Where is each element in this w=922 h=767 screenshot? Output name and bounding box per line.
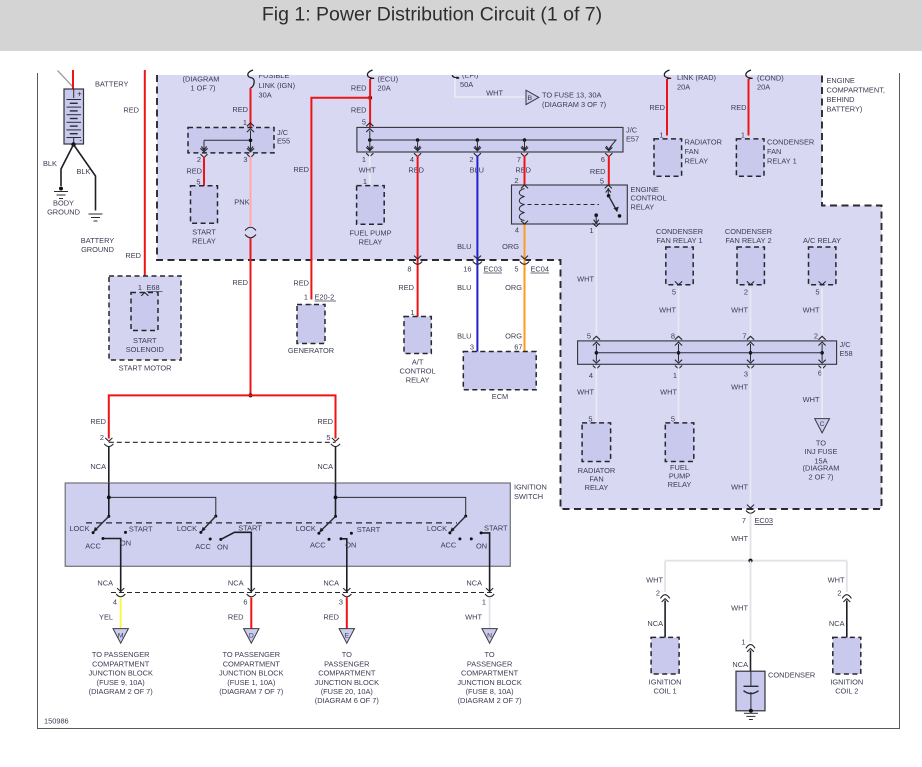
svg-text:YEL: YEL xyxy=(99,613,113,622)
off-page connector E xyxy=(339,629,354,644)
svg-text:BLU: BLU xyxy=(457,242,471,251)
J/C E55 pin 2 xyxy=(200,154,207,157)
svg-text:COMPARTMENT,: COMPARTMENT, xyxy=(827,86,885,95)
svg-text:IGNITION: IGNITION xyxy=(649,678,682,687)
wire RED branch to generator xyxy=(311,98,370,300)
junction at ECU fuse wire xyxy=(368,96,372,100)
svg-text:START: START xyxy=(133,336,157,345)
svg-text:5: 5 xyxy=(362,118,366,127)
wire RED ECU fuse to J/C E57 pin 5 xyxy=(369,79,371,127)
svg-text:NCA: NCA xyxy=(97,579,113,588)
ignition switch connector dashed line xyxy=(109,441,336,443)
svg-text:COIL 2: COIL 2 xyxy=(835,687,858,696)
svg-text:16: 16 xyxy=(463,265,471,274)
wire RED to radiator fan relay xyxy=(666,79,668,136)
relay pin 1 internal xyxy=(594,213,598,217)
svg-text:J/C: J/C xyxy=(626,126,638,135)
svg-text:WHT: WHT xyxy=(828,576,845,585)
wire WHT engine control relay pin1 to J/C E58 pin 5 xyxy=(595,229,597,341)
svg-text:CONDENSER: CONDENSER xyxy=(768,671,815,680)
svg-text:4: 4 xyxy=(589,371,593,380)
condenser capacitor symbol xyxy=(750,671,752,686)
fusible link (RAD) 20A xyxy=(664,70,670,79)
pin chevron xyxy=(366,186,373,189)
svg-text:IGNITION: IGNITION xyxy=(830,678,863,687)
wire RED battery positive feed xyxy=(72,70,74,89)
junction connector J/C E57 xyxy=(357,127,623,152)
svg-text:COMPARTMENT: COMPARTMENT xyxy=(92,659,150,668)
svg-text:(ECU): (ECU) xyxy=(378,75,399,84)
connector EC03 pin 7 xyxy=(747,505,754,508)
svg-text:RED: RED xyxy=(323,613,339,622)
relay switch contact xyxy=(606,189,611,193)
svg-text:2: 2 xyxy=(197,155,201,164)
svg-text:50A: 50A xyxy=(460,80,473,89)
svg-text:RELAY: RELAY xyxy=(585,483,609,492)
wire NCA into ignition switch (left) xyxy=(108,447,110,517)
svg-text:30A: 30A xyxy=(259,91,272,100)
svg-text:5: 5 xyxy=(326,433,330,442)
wire BLK to battery ground xyxy=(74,145,96,211)
battery ground symbol xyxy=(89,213,103,215)
svg-text:ACC: ACC xyxy=(195,542,211,551)
svg-text:BATTERY): BATTERY) xyxy=(827,105,863,114)
start motor M1 (outer box) xyxy=(109,276,181,360)
svg-text:B: B xyxy=(528,95,533,102)
wire RED battery feed to start solenoid xyxy=(144,70,146,290)
svg-text:NCA: NCA xyxy=(317,462,333,471)
wire YEL to fuse 9 xyxy=(120,597,122,628)
svg-text:7: 7 xyxy=(742,516,746,525)
junction battery negative xyxy=(71,142,75,146)
svg-text:CONDENSER: CONDENSER xyxy=(767,138,814,147)
svg-text:RED: RED xyxy=(123,106,139,115)
svg-text:RED: RED xyxy=(351,106,367,115)
svg-text:START: START xyxy=(238,524,262,533)
svg-text:RED: RED xyxy=(590,167,606,176)
relay internal dashed link xyxy=(528,204,600,206)
svg-text:2: 2 xyxy=(837,589,841,598)
svg-text:(DIAGRAM 2 OF 7): (DIAGRAM 2 OF 7) xyxy=(89,687,153,696)
svg-text:8: 8 xyxy=(407,265,411,274)
svg-text:WHT: WHT xyxy=(359,166,376,175)
svg-text:ON: ON xyxy=(476,542,487,551)
wire WHT E58 pin6 to connector C xyxy=(821,367,823,418)
wire RED E55 pin2 to start relay xyxy=(203,157,205,186)
wire WHT a/c relay to E58 pin 2 xyxy=(821,289,823,341)
svg-text:INJ FUSE: INJ FUSE xyxy=(805,447,838,456)
junction condenser ground xyxy=(749,709,753,713)
off-page connector C to INJ fuse xyxy=(815,419,830,433)
ignition switch position 2 xyxy=(214,515,217,518)
svg-text:RED: RED xyxy=(398,283,414,292)
svg-text:RELAY: RELAY xyxy=(631,202,655,211)
wire WHT distribution bus xyxy=(665,560,847,562)
pin chevron start relay xyxy=(200,186,207,189)
svg-text:20A: 20A xyxy=(677,83,690,92)
svg-text:WHT: WHT xyxy=(803,306,820,315)
svg-text:3: 3 xyxy=(243,155,247,164)
svg-text:5: 5 xyxy=(600,177,604,186)
svg-text:(DIAGRAM 2 OF 7): (DIAGRAM 2 OF 7) xyxy=(458,696,522,705)
wire RED distribution to ignition switch pins xyxy=(109,395,336,438)
svg-text:(DIAGRAM 7 OF 7): (DIAGRAM 7 OF 7) xyxy=(219,687,283,696)
svg-text:TO: TO xyxy=(485,650,495,659)
svg-text:START: START xyxy=(357,525,381,534)
svg-text:NCA: NCA xyxy=(466,579,482,588)
svg-text:RED: RED xyxy=(293,279,309,288)
junction connector J/C E58 xyxy=(578,341,837,364)
svg-text:EC03: EC03 xyxy=(484,265,503,274)
svg-text:2: 2 xyxy=(656,589,660,598)
svg-text:8: 8 xyxy=(671,332,675,341)
wire WHT condenser fan relay 1 to E58 pin 8 xyxy=(678,289,680,341)
svg-text:FAN: FAN xyxy=(767,147,781,156)
svg-text:1: 1 xyxy=(589,226,593,235)
J/C E58 pins and internal bus xyxy=(593,336,600,339)
svg-text:(FUSE 8, 10A): (FUSE 8, 10A) xyxy=(466,687,514,696)
svg-text:6: 6 xyxy=(243,598,247,607)
fuse (ECU) 20A xyxy=(367,70,373,79)
svg-text:RED: RED xyxy=(232,105,248,114)
svg-text:FUSIBLE: FUSIBLE xyxy=(259,71,290,80)
junction red distribution xyxy=(249,393,253,397)
svg-text:WHT: WHT xyxy=(577,388,594,397)
connector pin 2 coil 1 xyxy=(661,595,670,599)
body ground symbol xyxy=(59,187,63,191)
svg-text:2: 2 xyxy=(514,176,518,185)
svg-text:CONDENSER: CONDENSER xyxy=(656,227,703,236)
J/C E55 pin 1 xyxy=(247,123,254,126)
ignition switch internal feed right xyxy=(335,483,337,516)
svg-text:BLK: BLK xyxy=(77,167,91,176)
svg-text:5: 5 xyxy=(815,288,819,297)
svg-text:ACC: ACC xyxy=(85,542,101,551)
wire PNK from J/C E55 pin 3 xyxy=(250,157,252,227)
connector EC04 pin 5 xyxy=(521,256,528,259)
svg-text:1: 1 xyxy=(362,155,366,164)
svg-text:LOCK: LOCK xyxy=(427,524,447,533)
svg-text:67: 67 xyxy=(514,343,522,352)
wire RED E57 pin6 to engine control relay pin 5 xyxy=(608,155,610,185)
svg-text:6: 6 xyxy=(601,155,605,164)
ignition switch internal feed left xyxy=(108,483,110,516)
svg-text:(DIAGRAM 6 OF 7): (DIAGRAM 6 OF 7) xyxy=(315,696,379,705)
fuse (COND) 20A xyxy=(746,70,752,79)
wire WHT to ignition coil 1 xyxy=(664,561,666,592)
fuel pump relay (bottom) xyxy=(665,423,694,462)
svg-text:NCA: NCA xyxy=(90,462,106,471)
svg-text:ORG: ORG xyxy=(502,242,519,251)
svg-text:(COND): (COND) xyxy=(757,74,784,83)
svg-text:150986: 150986 xyxy=(44,717,69,726)
off-page connector N xyxy=(482,629,497,644)
wire ORG engine control relay pin4 to ECM xyxy=(524,224,526,352)
svg-text:(FUSE 20, 10A): (FUSE 20, 10A) xyxy=(321,687,373,696)
svg-text:ON: ON xyxy=(345,541,356,550)
wire WHT condenser fan relay 2 to E58 pin 7 xyxy=(750,289,752,341)
svg-text:(EFI): (EFI) xyxy=(462,71,478,80)
connector EC03 pin 16 xyxy=(474,256,481,259)
wire RED to ignition switch feed xyxy=(250,238,252,395)
svg-text:WHT: WHT xyxy=(731,534,748,543)
svg-text:4: 4 xyxy=(410,155,414,164)
svg-text:FAN RELAY 2: FAN RELAY 2 xyxy=(725,236,771,245)
svg-text:WHT: WHT xyxy=(731,483,748,492)
svg-text:1: 1 xyxy=(138,283,142,292)
fusible link (IGN) 30A xyxy=(248,70,254,88)
svg-text:NCA: NCA xyxy=(829,619,845,628)
svg-text:LINK (IGN): LINK (IGN) xyxy=(259,81,296,90)
svg-text:FAN: FAN xyxy=(685,147,699,156)
svg-text:TO PASSENGER: TO PASSENGER xyxy=(222,650,280,659)
svg-text:CONTROL: CONTROL xyxy=(400,367,436,376)
svg-text:RED: RED xyxy=(515,166,531,175)
svg-text:CONTROL: CONTROL xyxy=(631,194,667,203)
svg-text:E58: E58 xyxy=(840,349,853,358)
svg-text:-: - xyxy=(79,136,82,145)
relay coil xyxy=(519,189,524,221)
svg-text:GROUND: GROUND xyxy=(81,245,114,254)
battery B1 xyxy=(64,89,84,144)
svg-text:WHT: WHT xyxy=(646,576,663,585)
svg-text:ACC: ACC xyxy=(310,541,326,550)
svg-text:RED: RED xyxy=(232,278,248,287)
svg-text:LOCK: LOCK xyxy=(177,524,197,533)
wire RED to fuse 1 xyxy=(250,597,252,628)
svg-text:NCA: NCA xyxy=(228,579,244,588)
svg-text:(FUSE 9, 10A): (FUSE 9, 10A) xyxy=(97,678,145,687)
svg-text:1: 1 xyxy=(410,308,414,317)
start solenoid coil box xyxy=(131,293,158,331)
svg-text:RELAY: RELAY xyxy=(685,157,709,166)
svg-text:START: START xyxy=(484,524,508,533)
svg-text:RED: RED xyxy=(351,84,367,93)
svg-text:JUNCTION BLOCK: JUNCTION BLOCK xyxy=(219,669,284,678)
svg-text:COMPARTMENT: COMPARTMENT xyxy=(461,669,519,678)
svg-text:2: 2 xyxy=(469,155,473,164)
ignition switch position 3 xyxy=(334,515,337,518)
svg-text:BEHIND: BEHIND xyxy=(827,95,855,104)
svg-text:START MOTOR: START MOTOR xyxy=(119,364,172,373)
generator G1 xyxy=(297,305,325,344)
svg-text:ORG: ORG xyxy=(505,283,522,292)
start relay xyxy=(191,186,218,224)
svg-text:1: 1 xyxy=(673,371,677,380)
svg-text:WHT: WHT xyxy=(803,395,820,404)
pin chevron start solenoid xyxy=(141,293,148,296)
fuse (EFI) 50A xyxy=(452,70,478,80)
svg-text:WHT: WHT xyxy=(659,306,676,315)
svg-text:ON: ON xyxy=(217,543,228,552)
svg-text:PASSENGER: PASSENGER xyxy=(324,659,369,668)
svg-text:E55: E55 xyxy=(277,137,290,146)
svg-text:FAN RELAY 1: FAN RELAY 1 xyxy=(656,236,702,245)
wire NCA into ignition switch (right) xyxy=(335,447,337,517)
svg-text:WHT: WHT xyxy=(731,604,748,613)
svg-text:WHT: WHT xyxy=(465,613,482,622)
wire WHT EC03 to junction xyxy=(750,514,752,561)
svg-text:RELAY: RELAY xyxy=(406,376,430,385)
svg-text:5: 5 xyxy=(514,265,518,274)
svg-text:GROUND: GROUND xyxy=(47,208,80,217)
svg-text:5: 5 xyxy=(672,288,676,297)
ignition coil 1 xyxy=(651,637,679,674)
svg-text:BATTERY: BATTERY xyxy=(81,236,114,245)
svg-text:3: 3 xyxy=(339,598,343,607)
svg-text:(FUSE 1, 10A): (FUSE 1, 10A) xyxy=(227,678,275,687)
svg-text:RED: RED xyxy=(186,167,202,176)
svg-text:WHT: WHT xyxy=(577,275,594,284)
ignition coil 2 xyxy=(833,637,861,674)
svg-text:BODY: BODY xyxy=(53,199,74,208)
svg-text:3: 3 xyxy=(470,343,474,352)
svg-text:RED: RED xyxy=(125,251,141,260)
svg-text:RELAY: RELAY xyxy=(192,237,216,246)
svg-text:ON: ON xyxy=(120,539,131,548)
pin chevron ECM pin 67 xyxy=(521,352,528,355)
svg-text:RED: RED xyxy=(649,103,665,112)
condenser ground symbol xyxy=(744,712,758,714)
svg-text:LOCK: LOCK xyxy=(296,524,316,533)
svg-text:7: 7 xyxy=(517,155,521,164)
J/C E55 internal wiring xyxy=(250,131,252,150)
pin chevron ECM pin 3 xyxy=(474,352,481,355)
svg-text:(DIAGRAM: (DIAGRAM xyxy=(803,463,840,472)
wire off-page diagonal at battery xyxy=(58,71,73,87)
wire RED E57 pin4 to A/T control relay xyxy=(417,155,419,316)
bottom connector dashed line xyxy=(111,592,493,594)
J/C E57 internal bus xyxy=(369,131,371,141)
svg-text:SOLENOID: SOLENOID xyxy=(126,345,164,354)
svg-text:NCA: NCA xyxy=(323,579,339,588)
J/C E57 pin 5 top xyxy=(366,123,373,126)
svg-text:COMPARTMENT: COMPARTMENT xyxy=(318,669,376,678)
wire RED to condenser fan relay 1 xyxy=(748,79,750,136)
svg-text:RED: RED xyxy=(90,417,106,426)
svg-text:COMPARTMENT: COMPARTMENT xyxy=(223,659,281,668)
off-page connector B xyxy=(526,90,539,104)
connector pins 4 6 3 1 xyxy=(117,588,124,591)
wire BLK to body ground xyxy=(61,145,74,187)
svg-text:BATTERY: BATTERY xyxy=(95,80,128,89)
connector crossing pin 8 xyxy=(414,256,421,259)
svg-text:NCA: NCA xyxy=(732,660,748,669)
wire break symbol xyxy=(245,227,256,230)
svg-text:ORG: ORG xyxy=(505,332,522,341)
wire WHT E58 pin3 to EC03 pin 7 xyxy=(750,367,752,505)
svg-text:BLU: BLU xyxy=(457,283,471,292)
svg-text:COIL 1: COIL 1 xyxy=(654,687,677,696)
svg-text:E: E xyxy=(345,632,350,639)
pin chevron A/T relay xyxy=(414,317,421,320)
connector pin 2 coil 2 xyxy=(842,595,851,599)
svg-text:2: 2 xyxy=(100,433,104,442)
relay pin chevrons xyxy=(521,185,528,188)
wire WHT E58 pin1 to fuel pump relay xyxy=(678,367,680,423)
svg-text:WHT: WHT xyxy=(660,388,677,397)
ignition switch position 4 xyxy=(464,515,467,518)
svg-text:20A: 20A xyxy=(757,83,770,92)
fuel pump relay (engine compartment) xyxy=(357,186,385,225)
svg-text:4: 4 xyxy=(515,226,519,235)
wire WHT to condenser xyxy=(750,561,752,642)
svg-text:E68: E68 xyxy=(147,283,160,292)
svg-text:NCA: NCA xyxy=(647,619,663,628)
svg-text:EC03: EC03 xyxy=(755,516,774,525)
svg-text:(DIAGRAM 3 OF 7): (DIAGRAM 3 OF 7) xyxy=(542,100,606,109)
wire WHT to ignition coil 2 xyxy=(846,561,848,592)
svg-text:RELAY: RELAY xyxy=(668,480,692,489)
svg-text:3: 3 xyxy=(744,370,748,379)
svg-text:7: 7 xyxy=(742,332,746,341)
engine control relay xyxy=(512,185,628,224)
page border xyxy=(38,73,900,729)
svg-text:E57: E57 xyxy=(626,135,639,144)
junction connector J/C E55 xyxy=(188,128,274,153)
J/C E55 pin 3 xyxy=(247,154,254,157)
svg-text:EC04: EC04 xyxy=(531,265,550,274)
wire WHT E57 pin1 to fuel pump relay xyxy=(369,155,371,185)
svg-text:LINK (RAD): LINK (RAD) xyxy=(677,73,716,82)
ignition switch position 1 (LOCK/ACC/ON/START) xyxy=(107,515,110,518)
svg-text:ACC: ACC xyxy=(441,541,457,550)
svg-text:SWITCH: SWITCH xyxy=(514,492,543,501)
svg-text:20A: 20A xyxy=(378,84,391,93)
svg-text:RELAY: RELAY xyxy=(359,238,383,247)
svg-text:2 OF 7): 2 OF 7) xyxy=(808,473,833,482)
header bar xyxy=(0,0,922,51)
svg-text:JUNCTION BLOCK: JUNCTION BLOCK xyxy=(457,678,522,687)
svg-text:GENERATOR: GENERATOR xyxy=(288,346,334,355)
svg-text:RED: RED xyxy=(228,613,244,622)
svg-text:C: C xyxy=(820,421,825,428)
svg-text:A/C RELAY: A/C RELAY xyxy=(803,236,841,245)
svg-text:1: 1 xyxy=(741,638,745,647)
svg-text:1: 1 xyxy=(243,118,247,127)
svg-text:WHT: WHT xyxy=(731,383,748,392)
J/C E57 bottom pins 1 4 2 7 6 xyxy=(366,153,373,156)
svg-text:CONDENSER: CONDENSER xyxy=(725,227,772,236)
svg-text:PASSENGER: PASSENGER xyxy=(467,659,512,668)
wire RED to fuse 20 xyxy=(346,597,348,628)
svg-text:PNK: PNK xyxy=(234,198,249,207)
svg-text:2: 2 xyxy=(744,288,748,297)
svg-text:1: 1 xyxy=(741,131,745,140)
wire RED fusible link to J/C E55 pin 1 xyxy=(250,88,252,128)
junction ignition coil feed xyxy=(748,559,752,563)
off-page connector M xyxy=(113,629,128,644)
svg-text:ENGINE: ENGINE xyxy=(631,185,659,194)
svg-text:1: 1 xyxy=(482,598,486,607)
wire WHT to connector B xyxy=(455,78,526,97)
svg-text:M: M xyxy=(118,632,124,639)
svg-text:RED: RED xyxy=(408,166,424,175)
svg-text:N: N xyxy=(487,632,492,639)
wire BLU E57 pin2 to ECM xyxy=(476,155,478,351)
condenser xyxy=(736,671,765,711)
connector pin 2 xyxy=(105,438,112,441)
svg-text:TO FUSE 13, 30A: TO FUSE 13, 30A xyxy=(542,90,601,99)
connector pin 5 xyxy=(332,438,339,441)
svg-text:1 OF 7): 1 OF 7) xyxy=(190,84,215,93)
svg-text:5: 5 xyxy=(587,332,591,341)
wire NCA to condenser xyxy=(750,651,752,672)
svg-text:START: START xyxy=(129,525,153,534)
svg-text:BLK: BLK xyxy=(43,159,57,168)
ignition switch dashed gang line xyxy=(86,522,457,524)
wire RED E57 pin7 to engine control relay pin 2 xyxy=(524,155,526,185)
